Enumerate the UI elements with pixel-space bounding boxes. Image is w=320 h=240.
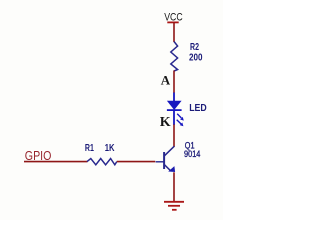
svg-text:200: 200 (189, 52, 203, 64)
resistor R1 (zigzag) (87, 159, 117, 165)
wire GPIO to R1 (24, 161, 88, 163)
transistor Q1 emitter diagonal with arrow (164, 165, 175, 172)
LED triangle (167, 101, 182, 110)
LED cathode bar (167, 109, 182, 111)
svg-text:A: A (161, 73, 171, 88)
LED cathode pin (173, 110, 175, 125)
power terminal VCC (bar symbol) (167, 21, 178, 23)
LED light arrow 2 (177, 120, 184, 126)
transistor Q1 collector diagonal (164, 146, 174, 156)
resistor R2 (zigzag) (171, 42, 178, 72)
wire LED cathode to Q1 collector (173, 125, 175, 148)
svg-text:R1: R1 (85, 142, 94, 154)
LED D1 anode pin (173, 93, 175, 102)
svg-text:K: K (160, 115, 171, 130)
wire Q1 emitter to ground (173, 172, 175, 201)
wire R2 bottom to LED anode, node A (173, 71, 175, 94)
wire R1 to Q1 base (117, 161, 155, 163)
svg-text:1K: 1K (105, 142, 115, 154)
transistor Q1 base pin (156, 161, 164, 163)
svg-text:9014: 9014 (184, 149, 200, 159)
svg-text:LED: LED (189, 102, 207, 114)
LED light arrow 1 (177, 114, 184, 121)
svg-text:GPIO: GPIO (25, 149, 52, 163)
wire VCC bar to R2 top (173, 22, 175, 42)
transistor Q1 base bar (163, 152, 165, 169)
ground symbol (164, 202, 184, 210)
